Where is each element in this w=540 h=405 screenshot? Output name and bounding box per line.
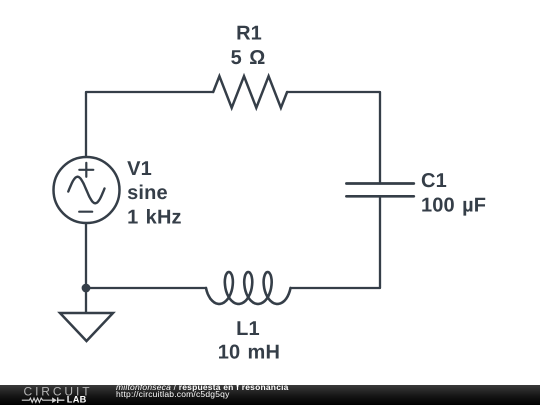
footer bar [0,385,540,405]
resistor R1 [213,76,287,108]
wire L1 left to junction [86,287,206,289]
V1 plus sign [79,163,93,177]
svg-text:100 µF: 100 µF [421,194,486,216]
wire top-left: V1 top to R1 left [86,92,213,157]
footer credit text [116,384,289,399]
svg-text:L1: L1 [236,318,260,340]
svg-text:sine: sine [127,182,168,204]
V1 minus sign [79,211,92,213]
ground [60,313,113,341]
wire junction to ground [85,288,87,313]
svg-text:LAB: LAB [67,395,87,405]
inductor L1 [206,272,291,304]
logo diode triangle [52,397,57,403]
svg-text:V1: V1 [127,158,152,180]
svg-text:5 Ω: 5 Ω [231,47,266,69]
junction node [82,284,91,293]
voltage source V1 [54,157,120,223]
V1 sine symbol [68,177,104,204]
capacitor C1 [346,184,413,197]
svg-text:10 mH: 10 mH [218,342,280,364]
svg-text:R1: R1 [236,22,262,44]
CircuitLab logo [0,385,100,405]
wire V1 bottom to junction [85,223,87,288]
wire C1 bottom to L1 right [291,196,381,288]
svg-text:C1: C1 [421,170,447,192]
wire R1 right to C1 top [287,92,380,184]
svg-text:1 kHz: 1 kHz [127,207,182,229]
logo resistor-diode symbol [22,397,65,403]
